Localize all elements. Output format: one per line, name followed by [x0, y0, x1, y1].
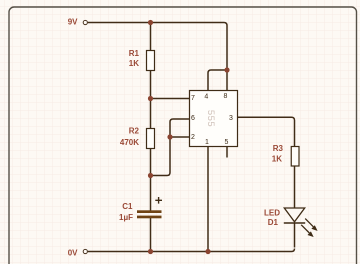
wire pin 8 [226, 70, 228, 90]
wire LED cathode to 0V [294, 223, 296, 248]
svg-text:470K: 470K [120, 138, 139, 147]
wire 9V rail [88, 23, 227, 71]
wire pin 2 [170, 136, 190, 138]
LED D1 cathode bar [284, 222, 305, 224]
IC U1 555 body [190, 91, 238, 147]
svg-text:1: 1 [205, 139, 209, 146]
svg-text:5: 5 [225, 139, 229, 146]
junction node pin 8 [224, 67, 229, 72]
capacitor C1 plates [137, 210, 162, 213]
svg-text:9V: 9V [68, 17, 78, 26]
svg-text:1K: 1K [129, 59, 139, 68]
C1 polarity plus [155, 197, 162, 204]
svg-text:6: 6 [191, 115, 195, 122]
svg-text:2: 2 [191, 134, 195, 141]
wire 0V rail [88, 249, 295, 252]
svg-text:1µF: 1µF [119, 213, 133, 222]
LED light arrow 2 [301, 225, 313, 237]
0V terminal [83, 249, 87, 253]
resistor R2 [147, 129, 155, 149]
wire pin 3 to R3 [238, 117, 295, 146]
svg-text:R1: R1 [129, 49, 140, 58]
wire R1 top lead [150, 23, 152, 51]
wire pin 5 stub [226, 147, 228, 158]
junction node pin 7 [148, 96, 153, 101]
wire C1 top lead [150, 176, 152, 211]
svg-text:3: 3 [229, 115, 233, 122]
svg-text:R3: R3 [273, 144, 284, 153]
svg-text:D1: D1 [268, 218, 279, 227]
wire C1 bottom lead [150, 218, 152, 252]
9V terminal [83, 20, 87, 24]
svg-text:C1: C1 [122, 202, 133, 211]
wire pin 7 [151, 98, 191, 100]
svg-text:7: 7 [191, 95, 195, 102]
svg-text:0V: 0V [68, 249, 78, 258]
svg-text:R2: R2 [129, 127, 140, 136]
LED D1 triangle [284, 208, 304, 222]
junction node C1/0V [148, 249, 153, 254]
resistor R1 [147, 51, 155, 71]
svg-text:555: 555 [205, 110, 216, 127]
LED light arrow 1 [305, 219, 317, 231]
resistor R3 [291, 147, 299, 167]
junction node R2/C1 [148, 173, 153, 178]
junction node pin 1/0V [205, 249, 210, 254]
wire R1 to R2 [150, 71, 152, 129]
wire pin 1 to 0V [207, 147, 209, 252]
svg-text:4: 4 [204, 94, 208, 101]
wire R2 bottom to C1 junction [150, 149, 152, 176]
wire pin 4 [208, 70, 227, 90]
svg-text:8: 8 [224, 93, 228, 100]
svg-text:LED: LED [264, 209, 280, 218]
wire R3 to LED [294, 166, 296, 208]
wire junction to pin 6 [151, 119, 191, 176]
svg-text:1K: 1K [272, 155, 282, 164]
junction node pin 2 [167, 134, 172, 139]
junction node R1 top [148, 20, 153, 25]
